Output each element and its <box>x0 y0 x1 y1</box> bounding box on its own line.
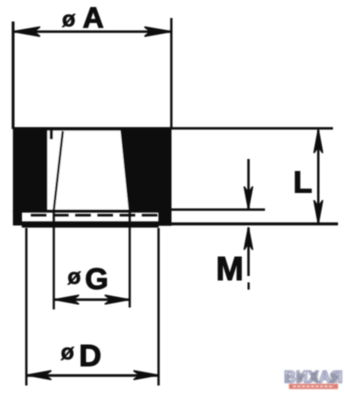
left wall lower column <box>13 210 22 226</box>
svg-text:ø: ø <box>61 340 75 365</box>
arrowhead øD left <box>27 371 52 380</box>
svg-text:ø: ø <box>68 264 82 289</box>
dashed hidden line under body <box>31 214 159 217</box>
extension line right of øA <box>170 18 172 129</box>
extension line left of øG <box>53 210 55 309</box>
svg-text:ø: ø <box>62 6 76 31</box>
washer top reference line for M <box>171 208 265 210</box>
arrowhead øA right <box>145 27 172 36</box>
svg-text:G: G <box>85 263 108 296</box>
body bottom edge line <box>22 210 158 213</box>
svg-text:A: A <box>83 3 104 35</box>
arrowhead øG right <box>105 295 130 304</box>
extension line left of øD <box>25 228 27 386</box>
bottom reference line for L <box>159 222 339 225</box>
dimension line M upper <box>247 159 249 209</box>
svg-text:D: D <box>79 338 101 373</box>
cone left slant edge <box>54 131 63 210</box>
watermark logo <box>284 369 343 390</box>
extension line right of øG <box>129 211 131 308</box>
dimension line L <box>317 130 319 224</box>
arrowhead øA left <box>13 27 40 36</box>
arrowhead M up <box>244 227 253 250</box>
right wall lower column <box>158 210 171 226</box>
arrowhead M down <box>244 187 253 210</box>
svg-text:L: L <box>293 165 312 200</box>
extension line left of øA <box>12 22 15 130</box>
small tick at bore top <box>50 131 53 140</box>
dimension line M lower <box>247 228 249 277</box>
body section (black cross-section of bushing) <box>13 128 172 212</box>
bore and cone white cut-out <box>47 131 128 210</box>
arrowhead L top <box>314 129 323 153</box>
washer plate thick line <box>22 221 159 227</box>
dimension line øD <box>26 374 158 377</box>
svg-text:M: M <box>216 250 244 287</box>
dimension line M lower dash <box>248 282 250 289</box>
top reference line for L <box>13 127 333 130</box>
extension line right of øD <box>157 228 159 386</box>
arrowhead øG left <box>54 295 79 304</box>
arrowhead L bottom <box>314 200 323 224</box>
dimension line øG <box>54 298 130 301</box>
arrowhead øD right <box>134 371 159 380</box>
dimension line øA <box>13 30 171 33</box>
